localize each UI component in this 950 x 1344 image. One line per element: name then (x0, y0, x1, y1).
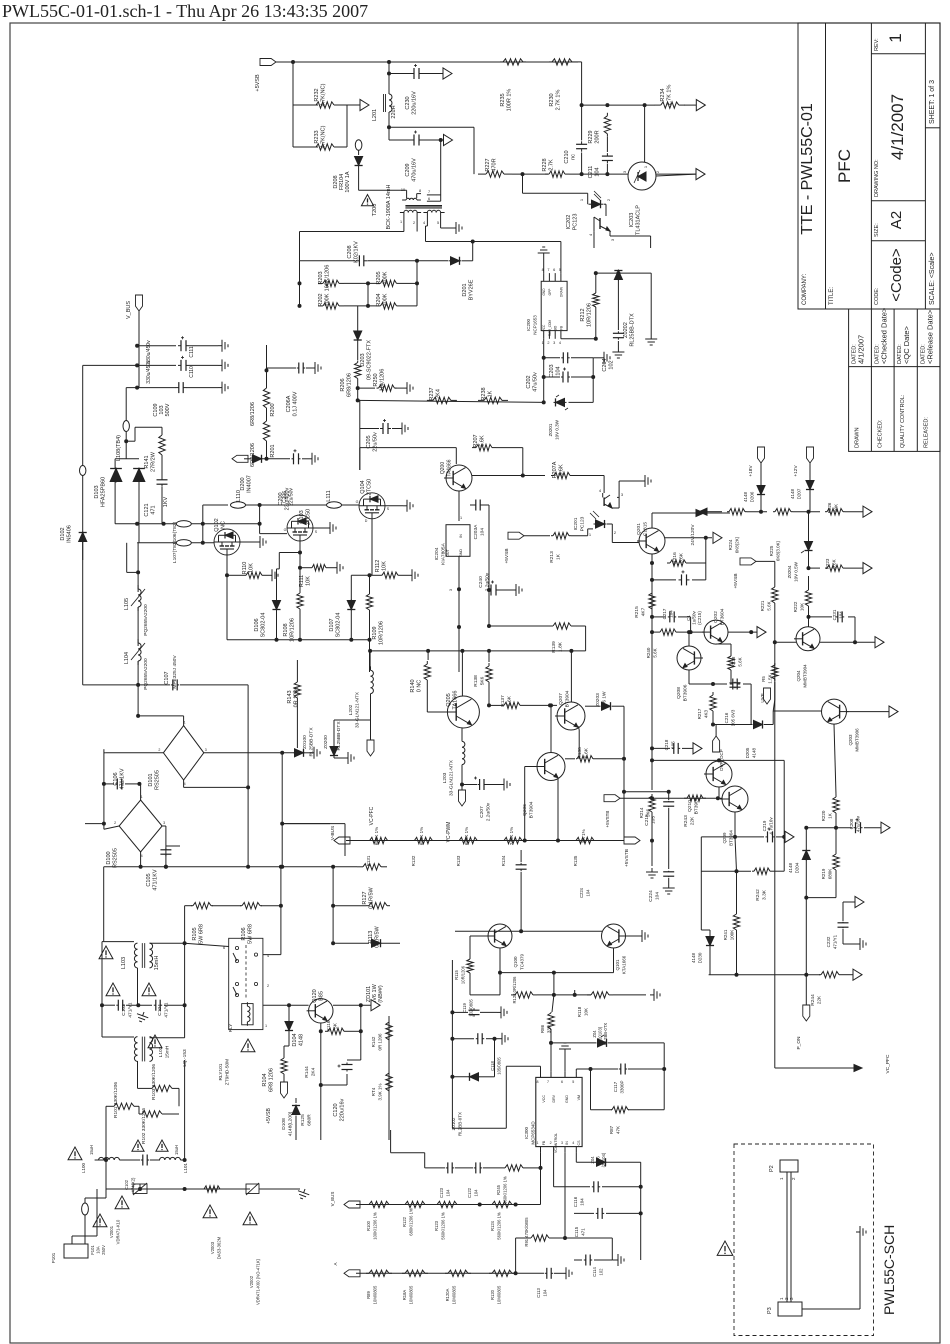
svg-text:104: 104 (580, 1198, 585, 1206)
svg-text:6R8 1206: 6R8 1206 (269, 1068, 275, 1092)
svg-text:104: 104 (655, 892, 661, 900)
svg-text:2: 2 (267, 984, 269, 988)
svg-text:10R/1206: 10R/1206 (587, 303, 593, 327)
svg-text:1: 1 (460, 516, 462, 520)
svg-text:RS2505: RS2505 (113, 848, 119, 868)
svg-text:Z04: Z04 (592, 1030, 597, 1038)
svg-text:C210: C210 (564, 150, 570, 163)
svg-text:680K 1%: 680K 1% (464, 827, 469, 845)
svg-text:5V6: 5V6 (596, 1156, 601, 1164)
svg-text:L100: L100 (81, 1162, 86, 1173)
svg-text:L111: L111 (326, 490, 332, 501)
svg-text:Q204: Q204 (796, 670, 801, 682)
svg-text:MMBT3904: MMBT3904 (803, 664, 808, 688)
svg-text:22u/50v: 22u/50v (373, 432, 379, 452)
svg-text:R127: R127 (362, 891, 368, 904)
svg-text:R120A: R120A (445, 1288, 450, 1301)
svg-text:2: 2 (114, 821, 116, 825)
svg-text:R212: R212 (580, 308, 586, 321)
svg-text:G: G (356, 500, 359, 504)
svg-text:TC4379: TC4379 (520, 954, 525, 971)
svg-text:R140: R140 (410, 679, 416, 692)
svg-text:8: 8 (537, 1080, 539, 1084)
svg-text:IC204: IC204 (434, 547, 440, 560)
svg-text:SCALE: <Scale>: SCALE: <Scale> (929, 252, 936, 305)
svg-text:C119: C119 (462, 1002, 467, 1012)
svg-text:15uH: 15uH (174, 1145, 179, 1155)
svg-text:R202: R202 (318, 293, 324, 306)
svg-text:6: 6 (553, 268, 555, 272)
svg-text:R217: R217 (697, 708, 702, 719)
svg-text:680K/1206 1%: 680K/1206 1% (409, 1208, 414, 1236)
svg-text:R134: R134 (501, 855, 506, 866)
svg-text:Z0204: Z0204 (787, 565, 792, 578)
svg-text:105 6V3: 105 6V3 (731, 709, 736, 726)
svg-text:4.7K(NC): 4.7K(NC) (321, 125, 327, 148)
svg-text:Q200: Q200 (440, 462, 446, 474)
svg-text:R89: R89 (366, 1290, 371, 1298)
svg-text:20K: 20K (834, 504, 839, 512)
svg-text:D103: D103 (94, 485, 100, 498)
svg-text:C120: C120 (333, 1103, 339, 1116)
svg-text:104: 104 (543, 1289, 548, 1297)
svg-text:DRAIN: DRAIN (559, 286, 563, 297)
svg-text:PQ2655A2200: PQ2655A2200 (143, 604, 149, 636)
svg-text:5.6K: 5.6K (584, 747, 590, 758)
svg-text:TA1666: TA1666 (447, 459, 453, 476)
svg-text:MMBT3906: MMBT3906 (855, 728, 860, 752)
svg-text:OPP: OPP (548, 289, 552, 296)
svg-text:BCK-1908A 14mH: BCK-1908A 14mH (386, 185, 392, 230)
svg-text:Q104: Q104 (360, 480, 366, 493)
svg-text:C219: C219 (762, 820, 767, 831)
svg-text:SC802-04: SC802-04 (336, 613, 342, 638)
svg-text:5.6K: 5.6K (559, 464, 565, 476)
svg-text:330u/450v: 330u/450v (146, 340, 152, 364)
svg-text:Z0203: Z0203 (595, 693, 601, 707)
svg-text:(NB##): (NB##) (378, 985, 384, 1003)
svg-text:<Checked Date>: <Checked Date> (879, 307, 888, 364)
svg-text:6: 6 (561, 1080, 563, 1084)
svg-text:R221: R221 (760, 600, 765, 611)
svg-text:R233: R233 (314, 130, 320, 143)
svg-text:OUT: OUT (446, 548, 450, 556)
svg-text:C218: C218 (664, 739, 669, 750)
svg-text:R207: R207 (473, 434, 479, 447)
svg-text:BT3604: BT3604 (720, 608, 726, 625)
svg-text:R203: R203 (318, 271, 324, 284)
svg-text:4148: 4148 (691, 952, 696, 963)
svg-text:4/1/2007: 4/1/2007 (857, 335, 866, 364)
svg-text:RL2BB-0TX: RL2BB-0TX (603, 1023, 608, 1046)
svg-text:0 NC: 0 NC (417, 680, 423, 693)
svg-text:RL2BB-0TX: RL2BB-0TX (458, 1112, 463, 1136)
svg-text:C206A: C206A (286, 395, 292, 412)
svg-text:C106: C106 (113, 772, 119, 785)
svg-text:10M/0805: 10M/0805 (409, 1285, 414, 1304)
svg-text:10V 0.5W: 10V 0.5W (794, 561, 799, 582)
svg-text:DRAWN: DRAWN (855, 427, 861, 448)
svg-text:D104: D104 (292, 1033, 298, 1046)
svg-text:C121: C121 (144, 503, 150, 516)
svg-text:+12V: +12V (793, 465, 799, 477)
svg-text:VC_PFC: VC_PFC (885, 1054, 891, 1073)
svg-text:3: 3 (449, 589, 453, 591)
svg-text:ZT9HD-50M: ZT9HD-50M (225, 1059, 231, 1085)
svg-text:5.6K: 5.6K (507, 695, 513, 706)
svg-text:7: 7 (428, 190, 430, 194)
svg-text:100K: 100K (383, 293, 389, 306)
svg-text:104: 104 (669, 610, 674, 618)
svg-text:10K: 10K (800, 603, 805, 611)
svg-text:Z0200: Z0200 (323, 735, 329, 749)
svg-text:D200: D200 (240, 477, 246, 490)
svg-text:100K/1206: 100K/1206 (325, 265, 331, 292)
svg-text:C216: C216 (724, 712, 729, 723)
svg-text:GND: GND (459, 549, 463, 557)
svg-text:3.3K: 3.3K (762, 889, 768, 900)
svg-text:5K 1%: 5K 1% (581, 829, 586, 842)
svg-text:5.6K: 5.6K (767, 601, 772, 610)
svg-text:R142: R142 (371, 1036, 376, 1047)
svg-text:L102: L102 (158, 1046, 164, 1057)
svg-text:10R/1206: 10R/1206 (379, 621, 385, 645)
svg-text:5.6K: 5.6K (480, 435, 486, 447)
svg-text:Q203: Q203 (848, 734, 853, 746)
svg-text:R128 0R/1206: R128 0R/1206 (512, 976, 517, 1004)
svg-text:100K: 100K (325, 293, 331, 306)
svg-text:1.5K: 1.5K (768, 674, 773, 683)
svg-text:+5VSB: +5VSB (255, 74, 261, 92)
svg-text:D203: D203 (360, 353, 366, 366)
svg-text:R204: R204 (376, 293, 382, 306)
svg-text:R230: R230 (549, 93, 555, 106)
svg-text:R100: R100 (366, 1220, 371, 1231)
svg-text:470R: 470R (492, 158, 498, 171)
svg-text:C1815: C1815 (643, 522, 649, 536)
svg-text:R242: R242 (755, 889, 761, 901)
svg-text:C117: C117 (613, 1081, 618, 1092)
svg-text:2: 2 (550, 1141, 552, 1145)
svg-text:R240: R240 (646, 647, 651, 658)
svg-text:L107(T82): L107(T82) (172, 541, 178, 564)
svg-text:10M/0805: 10M/0805 (373, 1285, 378, 1304)
svg-text:Z0100: Z0100 (302, 735, 308, 749)
svg-text:R229: R229 (588, 130, 594, 143)
svg-text:IC200: IC200 (526, 319, 531, 332)
svg-text:D205: D205 (745, 747, 750, 758)
svg-text:(20103): (20103) (598, 1026, 603, 1041)
svg-text:TA1666: TA1666 (453, 691, 459, 710)
svg-text:471/Y1: 471/Y1 (164, 1002, 170, 1018)
svg-text:R105: R105 (192, 927, 198, 940)
svg-text:IC201: IC201 (573, 517, 579, 530)
svg-text:R125: R125 (300, 1114, 306, 1126)
svg-text:R201: R201 (270, 444, 276, 457)
svg-text:IN4007: IN4007 (247, 475, 253, 493)
svg-text:102/0805: 102/0805 (469, 999, 474, 1017)
svg-text:105/0805: 105/0805 (497, 1057, 502, 1075)
svg-text:22K: 22K (690, 816, 696, 825)
svg-text:RL25BB-DTX: RL25BB-DTX (309, 727, 315, 757)
svg-text:PWL55C-01-01.sch-1 - Thu Apr 2: PWL55C-01-01.sch-1 - Thu Apr 26 13:43:35… (2, 1, 368, 21)
svg-text:IN5406: IN5406 (67, 525, 73, 543)
svg-text:PFC: PFC (835, 149, 854, 183)
svg-text:330u/450v: 330u/450v (146, 360, 152, 384)
svg-text:104: 104 (480, 528, 486, 536)
svg-text:680K: 680K (828, 869, 833, 880)
svg-text:560K/1206 1%: 560K/1206 1% (503, 1176, 508, 1204)
svg-text:L203: L203 (442, 772, 448, 783)
svg-text:MPE325J 450V: MPE325J 450V (172, 655, 178, 689)
svg-text:4K3: 4K3 (704, 710, 709, 719)
svg-text:COMPANY:: COMPANY: (802, 273, 808, 305)
svg-text:R228: R228 (731, 656, 736, 667)
svg-text:F101: F101 (90, 1245, 95, 1255)
svg-text:100V 1A: 100V 1A (345, 171, 351, 192)
svg-text:V2003: V2003 (210, 1241, 215, 1254)
svg-text:5W 6R8: 5W 6R8 (199, 924, 205, 944)
svg-text:R226: R226 (827, 502, 832, 513)
svg-text:C122: C122 (467, 1187, 472, 1198)
svg-text:4/1/2007: 4/1/2007 (888, 94, 907, 160)
svg-text:4148: 4148 (790, 488, 795, 499)
svg-text:TTE - PWL55C-01: TTE - PWL55C-01 (799, 103, 816, 235)
svg-text:7: 7 (547, 1080, 549, 1084)
svg-text:KTA1666: KTA1666 (622, 955, 627, 974)
svg-text:8: 8 (419, 189, 421, 193)
svg-text:RL25BB-DTX: RL25BB-DTX (336, 721, 342, 751)
svg-text:C230: C230 (405, 96, 411, 109)
svg-text:IC300: IC300 (524, 1127, 529, 1140)
svg-text:R227: R227 (485, 158, 491, 171)
svg-text:Q201: Q201 (636, 523, 642, 535)
svg-text:104: 104 (595, 167, 601, 176)
svg-text:K02/1KV: K02/1KV (354, 241, 360, 263)
svg-text:+5VSTB: +5VSTB (624, 849, 630, 867)
svg-text:D108: D108 (281, 1118, 287, 1130)
svg-text:+5VSTB: +5VSTB (605, 811, 610, 828)
svg-text:5.6K: 5.6K (653, 648, 658, 657)
svg-text:2.2u/50v: 2.2u/50v (486, 802, 492, 821)
svg-text:C217: C217 (662, 608, 667, 619)
svg-text:R250: R250 (373, 373, 379, 386)
svg-text:2.7K 1%: 2.7K 1% (556, 89, 562, 110)
svg-text:PC123: PC123 (573, 214, 579, 231)
svg-text:TITLE:: TITLE: (829, 287, 835, 305)
svg-text:560K/1206 1%: 560K/1206 1% (441, 1212, 446, 1240)
svg-text:10V 0.3W: 10V 0.3W (555, 419, 560, 440)
svg-text:3: 3 (163, 821, 165, 825)
svg-text:C202: C202 (526, 375, 532, 388)
svg-text:RLY: RLY (228, 1024, 233, 1032)
svg-text:BT3906: BT3906 (683, 684, 689, 701)
svg-text:2K4: 2K4 (436, 389, 442, 399)
svg-text:P2: P2 (769, 1165, 775, 1172)
svg-text:1: 1 (265, 1024, 267, 1028)
svg-text:VCONTROL: VCONTROL (554, 1133, 558, 1153)
svg-text:4148: 4148 (788, 862, 793, 873)
svg-text:Q101: Q101 (615, 959, 620, 971)
svg-text:680K 1%: 680K 1% (374, 827, 379, 845)
svg-text:3300P: 3300P (620, 1080, 625, 1093)
svg-text:R131: R131 (366, 855, 371, 866)
svg-text:100K/1206 1%: 100K/1206 1% (373, 1212, 378, 1240)
svg-text:100K: 100K (730, 930, 735, 941)
svg-text:PWL55C-SCH: PWL55C-SCH (881, 1225, 897, 1315)
svg-text:3.9K 1%: 3.9K 1% (378, 1083, 383, 1100)
svg-text:Q102: Q102 (214, 518, 220, 531)
svg-text:R225: R225 (769, 545, 774, 556)
svg-text:nc: nc (571, 154, 577, 160)
svg-text:R215: R215 (634, 606, 640, 618)
svg-text:10K: 10K (306, 576, 312, 586)
svg-text:BO: BO (554, 325, 558, 330)
svg-text:24V/120V: 24V/120V (690, 524, 696, 546)
svg-text:Q208: Q208 (676, 687, 682, 699)
svg-text:R109: R109 (372, 626, 378, 639)
svg-text:680R: 680R (307, 1114, 313, 1126)
svg-text:15mH: 15mH (154, 956, 160, 971)
svg-text:C107: C107 (164, 671, 170, 684)
svg-text:FB: FB (559, 326, 563, 330)
svg-text:Q209: Q209 (722, 832, 727, 844)
svg-text:2K4: 2K4 (311, 1067, 317, 1076)
svg-text:R144: R144 (304, 1066, 310, 1078)
svg-text:C111: C111 (189, 346, 195, 357)
svg-text:220u/16V: 220u/16V (412, 91, 418, 115)
svg-text:D230: D230 (698, 952, 703, 963)
svg-text:102: 102 (599, 1268, 604, 1276)
svg-text:<QC Date>: <QC Date> (902, 325, 911, 364)
svg-text:47u/50v: 47u/50v (533, 372, 539, 392)
svg-text:NCP1653: NCP1653 (533, 315, 538, 335)
svg-text:240K 1%: 240K 1% (509, 827, 514, 845)
svg-text:47K: 47K (616, 1126, 621, 1134)
svg-text:D201: D201 (462, 283, 468, 296)
svg-text:10: 10 (401, 188, 405, 192)
svg-text:R136: R136 (577, 747, 583, 759)
svg-text:R219: R219 (821, 868, 826, 879)
svg-text:P_ON: P_ON (796, 1036, 802, 1050)
svg-text:RAM_COM: RAM_COM (548, 320, 552, 337)
svg-text:R228: R228 (542, 158, 548, 171)
svg-text:R108: R108 (283, 623, 289, 636)
svg-text:1K: 1K (556, 553, 562, 560)
svg-text:471: 471 (581, 1228, 586, 1236)
svg-text:C105: C105 (146, 873, 152, 886)
svg-text:R216: R216 (672, 552, 678, 564)
svg-text:105: 105 (651, 816, 657, 824)
svg-text:C240: C240 (478, 576, 484, 588)
svg-text:VC-PWM: VC-PWM (446, 822, 452, 843)
svg-text:DRAWING NO:: DRAWING NO: (874, 159, 880, 197)
svg-text:500V: 500V (165, 403, 171, 416)
svg-text:1u/50v: 1u/50v (692, 610, 697, 624)
svg-text:R207A: R207A (552, 461, 558, 478)
svg-text:IC203: IC203 (629, 213, 635, 228)
svg-text:10K: 10K (584, 1008, 589, 1016)
svg-text:DRV: DRV (552, 1094, 556, 1102)
svg-text:KIA7805A: KIA7805A (441, 542, 447, 564)
svg-text:Q207: Q207 (558, 693, 564, 705)
svg-text:L104: L104 (124, 652, 130, 664)
svg-text:1K: 1K (828, 813, 833, 819)
svg-text:C102: C102 (124, 1179, 129, 1190)
svg-text:471/1KV: 471/1KV (120, 768, 126, 789)
svg-text:R141: R141 (144, 455, 150, 468)
svg-text:+18V: +18V (748, 465, 754, 477)
svg-text:R111: R111 (299, 575, 305, 587)
svg-text:R123: R123 (434, 1220, 439, 1231)
svg-text:D106: D106 (254, 618, 260, 631)
svg-text:UVP: UVP (760, 693, 765, 702)
svg-text:L101: L101 (183, 1162, 188, 1173)
svg-text:22uH: 22uH (391, 105, 397, 118)
svg-text:R143: R143 (287, 690, 293, 703)
svg-text:Q103: Q103 (299, 510, 305, 523)
svg-text:10R/1206: 10R/1206 (290, 618, 296, 642)
svg-text:(C215): (C215) (697, 611, 702, 625)
svg-text:6R8/1206: 6R8/1206 (347, 373, 353, 397)
svg-text:R110: R110 (242, 562, 248, 575)
svg-text:3: 3 (561, 1141, 563, 1145)
svg-text:D102: D102 (60, 527, 66, 540)
svg-text:22u/50v: 22u/50v (289, 488, 295, 506)
svg-text:VCC: VCC (542, 324, 546, 331)
svg-text:V-BUS: V-BUS (330, 826, 336, 840)
svg-text:CHECKED:: CHECKED: (877, 419, 883, 448)
svg-text:RS2505: RS2505 (155, 770, 161, 790)
svg-text:R118: R118 (577, 1006, 582, 1017)
svg-text:P101: P101 (51, 1252, 56, 1263)
svg-text:4.7K(NC): 4.7K(NC) (321, 83, 327, 106)
svg-text:MCP6534D: MCP6534D (531, 1121, 536, 1145)
svg-text:1.8K: 1.8K (558, 641, 564, 652)
svg-text:BT3904: BT3904 (565, 690, 571, 707)
svg-text:R205: R205 (376, 271, 382, 284)
svg-text:+5VSB: +5VSB (504, 548, 510, 563)
svg-text:1: 1 (537, 1141, 539, 1145)
svg-text:4.7u/16v: 4.7u/16v (769, 817, 774, 835)
svg-text:C224: C224 (579, 887, 584, 898)
svg-text:C209: C209 (405, 163, 411, 176)
svg-text:L105: L105 (124, 598, 130, 610)
svg-text:Q202: Q202 (713, 611, 719, 623)
svg-text:2TC50: 2TC50 (306, 509, 312, 526)
svg-text:R244: R244 (810, 994, 816, 1006)
svg-text:C208: C208 (849, 818, 854, 829)
svg-text:PC123: PC123 (580, 516, 586, 531)
svg-text:D: D (365, 519, 368, 523)
svg-text:BYV26E: BYV26E (469, 279, 475, 300)
svg-text:R232: R232 (314, 88, 320, 101)
svg-text:5: 5 (437, 221, 439, 225)
svg-text:7: 7 (547, 268, 549, 272)
svg-text:220u/16v: 220u/16v (340, 1098, 346, 1121)
svg-text:33R: 33R (547, 1024, 552, 1033)
svg-text:104: 104 (446, 1189, 451, 1197)
svg-text:R241: R241 (723, 929, 728, 940)
svg-text:Z04: Z04 (590, 1156, 595, 1164)
svg-text:104: 104 (586, 889, 591, 897)
svg-text:5.6K: 5.6K (832, 559, 837, 568)
svg-text:IN: IN (459, 534, 463, 538)
svg-text:R224: R224 (728, 539, 733, 550)
svg-text:C203: C203 (549, 364, 555, 377)
svg-text:L106(T82): L106(T82) (172, 522, 178, 545)
svg-text:R87: R87 (609, 1125, 614, 1134)
